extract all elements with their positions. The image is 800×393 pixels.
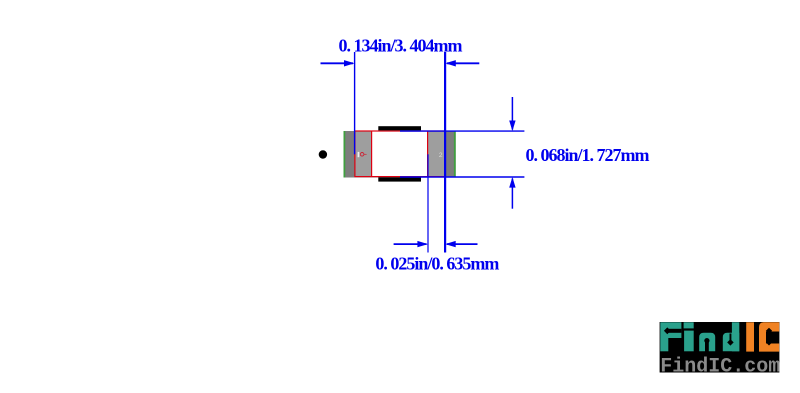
dimension: height arrow line bottom <box>511 179 513 209</box>
dimension: top width extension line left <box>354 52 356 154</box>
logo letter i <box>684 322 694 351</box>
bottom electrode bar (black) <box>378 177 421 181</box>
dimension: pad width arrow line left <box>394 243 427 245</box>
dimension: pad width extension line left <box>427 154 429 252</box>
component body <box>344 131 456 178</box>
pad 1 (left land) <box>355 131 372 177</box>
dimension: pad width arrow line right <box>447 243 478 245</box>
reference dot (node) <box>319 150 327 158</box>
pin 1 label <box>358 152 360 157</box>
logo letter I <box>746 322 754 351</box>
logo letter C <box>759 322 779 351</box>
dimension: height arrowhead bottom <box>509 177 515 188</box>
dimension: height extension line top <box>400 130 524 132</box>
svg-text:0.134in/3.404mm: 0.134in/3.404mm <box>339 35 463 55</box>
pad outline (red) <box>355 131 445 177</box>
pad 2 (right land) <box>428 131 445 177</box>
dimension: pad width arrowhead left <box>417 241 428 247</box>
pad 2 inner edge (red) <box>427 131 429 177</box>
dimension: height extension line bottom <box>400 176 524 178</box>
svg-text:FindIC.com: FindIC.com <box>660 356 780 379</box>
FindIC logo background <box>660 322 780 373</box>
pad 1 inner edge (red) <box>371 131 373 177</box>
dimension: top width arrowhead right <box>445 60 456 66</box>
dimension: top width arrow line right <box>447 62 479 64</box>
logo letter n <box>699 333 715 352</box>
pin 1 marker (red ring) <box>360 153 364 157</box>
body left terminal edge (green) <box>344 131 346 178</box>
svg-text:0.025in/0.635mm: 0.025in/0.635mm <box>375 253 499 273</box>
dimension: pad width arrowhead right <box>445 241 456 247</box>
top electrode bar (black) <box>378 126 421 130</box>
dimension: height arrowhead top <box>509 121 515 132</box>
pin 1 marker tick <box>364 153 367 155</box>
dimension: top/bottom shared extension line right <box>444 52 446 253</box>
dimension: top width arrow line left <box>321 62 354 64</box>
svg-text:0.068in/1.727mm: 0.068in/1.727mm <box>526 145 650 165</box>
logo letter d <box>723 322 740 351</box>
dimension: height arrow line top <box>511 97 513 130</box>
logo letter F <box>660 322 681 351</box>
dimension: top width arrowhead left <box>344 60 355 66</box>
svg-text:2: 2 <box>439 152 443 159</box>
white chip body center <box>372 131 428 177</box>
body right terminal edge (green) <box>454 131 456 178</box>
